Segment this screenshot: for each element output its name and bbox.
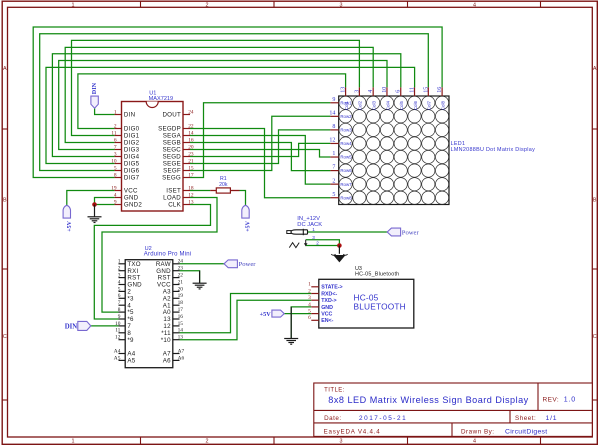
svg-text:19: 19	[178, 293, 184, 299]
U1 pin 10 DIG5	[115, 163, 122, 165]
U2 pin 5 2	[119, 290, 126, 292]
svg-text:1/1: 1/1	[546, 415, 558, 422]
title block frame	[314, 383, 593, 436]
wire DIN flag to U1 pin1	[95, 108, 115, 114]
U1 pin 9 GND2	[115, 204, 122, 206]
U2 pin 13 *10	[173, 339, 180, 341]
wire net SEGA (U1 SEGA to matrix Row7)	[190, 136, 330, 185]
wire net RXD (U2 pin14 to U3 RXD)	[180, 294, 312, 333]
wire net SEGB (U1 SEGB to matrix Row6)	[190, 143, 330, 171]
wire ISET to R1	[190, 190, 210, 192]
svg-text:DOUT: DOUT	[162, 112, 181, 119]
svg-text:20: 20	[188, 144, 194, 150]
svg-text:9: 9	[118, 314, 121, 320]
U1 pin 5 DIG6	[115, 170, 122, 172]
svg-text:3: 3	[312, 235, 315, 240]
svg-text:GND: GND	[124, 195, 139, 202]
svg-text:10: 10	[111, 158, 117, 164]
svg-text:6: 6	[118, 293, 121, 299]
svg-text:TXD->: TXD->	[321, 298, 336, 304]
U2 pin A5	[119, 359, 126, 361]
svg-text:1: 1	[72, 3, 75, 9]
svg-text:3: 3	[354, 90, 360, 93]
U3 pin 6 EN<-	[311, 319, 319, 321]
svg-text:MAX7219: MAX7219	[149, 96, 174, 102]
svg-text:1: 1	[114, 109, 117, 115]
wire net TXD (U2 pin13 to U3 TXD)	[180, 300, 312, 340]
wire net DIG7 (U1 DIG7 to matrix column)	[33, 27, 442, 178]
svg-text:B: B	[3, 198, 7, 204]
U2 pin 14 *11	[173, 332, 180, 334]
svg-text:HC-05_Bluetooth: HC-05_Bluetooth	[355, 272, 399, 278]
svg-text:ISET: ISET	[166, 188, 181, 195]
svg-text:5: 5	[308, 309, 311, 315]
svg-text:VCC: VCC	[124, 188, 138, 195]
svg-text:A5: A5	[114, 355, 121, 361]
svg-text:Sheet:: Sheet:	[515, 415, 536, 422]
wire DIN flag to U2 pin10	[91, 325, 119, 327]
svg-text:DIN: DIN	[91, 82, 98, 94]
U1 pin 16 SEGB	[183, 142, 190, 144]
svg-text:23: 23	[188, 151, 194, 157]
U1 pin 13 CLK	[183, 204, 190, 206]
svg-text:SEGC: SEGC	[162, 147, 181, 154]
svg-text:1: 1	[332, 151, 335, 157]
U1 pin 3 DIG4	[115, 156, 122, 158]
U2 pin 20 A3	[173, 290, 180, 292]
svg-text:10: 10	[115, 321, 121, 327]
svg-text:TITLE:: TITLE:	[324, 387, 345, 393]
wire GND pin4 of U1	[95, 198, 115, 205]
svg-text:7: 7	[118, 300, 121, 306]
svg-text:DC JACK: DC JACK	[297, 222, 322, 228]
svg-text:20k: 20k	[219, 182, 228, 188]
svg-text:SEGB: SEGB	[163, 140, 181, 147]
U1 pin 4 GND	[115, 197, 122, 199]
U3 pin 3 TXD->	[311, 299, 319, 301]
svg-text:2: 2	[114, 123, 117, 129]
svg-text:3: 3	[114, 151, 117, 157]
microcontroller U2 Arduino Pro Mini body	[125, 260, 173, 368]
wire net SEGC (U1 SEGC to matrix Row5)	[190, 150, 330, 158]
U3 pin 1 STATE->	[311, 286, 319, 288]
bluetooth module U3 HC-05 body	[319, 279, 414, 328]
svg-text:A6: A6	[178, 355, 185, 361]
svg-text:IN_+12V: IN_+12V	[297, 216, 320, 222]
U1 pin 17 SEGG	[183, 177, 190, 179]
wire net DIG3 (U1 DIG3 to matrix column)	[59, 61, 387, 150]
svg-text:24: 24	[188, 109, 194, 115]
svg-text:3: 3	[340, 3, 343, 9]
IC U1 MAX7219 body	[122, 102, 184, 212]
svg-text:+5V: +5V	[260, 311, 272, 318]
svg-text:12: 12	[188, 192, 194, 198]
svg-text:20: 20	[178, 286, 184, 292]
U1 pin 8 DIG7	[115, 177, 122, 179]
svg-text:18: 18	[178, 300, 184, 306]
DC jack connector symbol	[287, 231, 291, 234]
svg-text:LOAD: LOAD	[163, 195, 181, 202]
svg-text:GND2: GND2	[124, 202, 142, 209]
svg-text:Col8: Col8	[440, 101, 445, 111]
U1 pin 20 SEGC	[183, 149, 190, 151]
svg-text:2: 2	[206, 439, 209, 445]
svg-text:15: 15	[178, 321, 184, 327]
wire GND2 pin9 of U1	[95, 204, 115, 206]
U2 pin A6	[173, 359, 180, 361]
svg-text:17: 17	[178, 307, 184, 313]
wire net SEGD (U1 SEGD to matrix Row4)	[190, 143, 330, 156]
U2 pin 2 RXI	[119, 270, 126, 272]
svg-text:DIG4: DIG4	[124, 154, 140, 161]
ground symbol at DC jack (filled)	[338, 246, 340, 254]
wire DC jack tip to Power flag	[308, 231, 388, 233]
svg-text:4: 4	[473, 3, 476, 9]
U2 pin 11 8	[119, 332, 126, 334]
svg-text:3: 3	[118, 273, 121, 279]
svg-text:REV:: REV:	[543, 396, 560, 403]
svg-text:*9: *9	[127, 337, 134, 344]
ground symbol under U2 GND	[199, 271, 201, 284]
U1 pin 7 DIG3	[115, 149, 122, 151]
svg-text:16: 16	[188, 137, 194, 143]
wire U2 GND to ground	[180, 271, 200, 283]
svg-text:16: 16	[178, 314, 184, 320]
U1 pin 2 DIG0	[115, 128, 122, 130]
U2 pin 9 *6	[119, 318, 126, 320]
svg-text:+5V: +5V	[67, 220, 73, 231]
svg-text:4: 4	[114, 192, 117, 198]
svg-text:B: B	[593, 198, 597, 204]
U2 pin 8 *5	[119, 311, 126, 313]
svg-text:VCC: VCC	[321, 312, 332, 318]
U2 pin 6 *3	[119, 297, 126, 299]
wire +5V flag to U3 VCC	[284, 313, 311, 315]
svg-text:RXD<-: RXD<-	[321, 291, 337, 297]
svg-text:5: 5	[118, 286, 121, 292]
svg-text:A4: A4	[114, 348, 121, 354]
U2 pin 4 GND	[119, 284, 126, 286]
svg-text:8x8 LED Matrix Wireless Sign B: 8x8 LED Matrix Wireless Sign Board Displ…	[328, 395, 528, 405]
U2 pin A4	[119, 353, 126, 355]
power flag Power (DC jack)	[387, 228, 400, 236]
wire net DIG5 (U1 DIG5 to matrix column)	[46, 67, 415, 163]
svg-text:A7: A7	[178, 348, 185, 354]
svg-text:BLUETOOTH: BLUETOOTH	[354, 301, 406, 311]
svg-text:DIG3: DIG3	[124, 147, 140, 154]
U3 pin 2 RXD<-	[311, 293, 319, 295]
U1 pin 23 SEGD	[183, 156, 190, 158]
svg-text:DIG0: DIG0	[124, 126, 140, 133]
U2 pin 24 RAW	[173, 263, 180, 265]
net flag DIN (top, to U1)	[91, 96, 98, 108]
svg-text:1: 1	[118, 259, 121, 265]
svg-text:SEGF: SEGF	[163, 168, 181, 175]
U1 pin 12 LOAD	[183, 197, 190, 199]
svg-text:8: 8	[118, 307, 121, 313]
svg-text:14: 14	[178, 328, 184, 334]
svg-text:7: 7	[114, 144, 117, 150]
svg-text:Col7: Col7	[427, 101, 432, 111]
svg-text:CLK: CLK	[168, 202, 181, 209]
svg-text:Col1: Col1	[344, 101, 349, 111]
svg-text:15: 15	[423, 87, 429, 93]
U1 pin 6 DIG2	[115, 142, 122, 144]
svg-text:SEGE: SEGE	[163, 161, 181, 168]
svg-text:A6: A6	[163, 358, 171, 365]
svg-text:3: 3	[308, 295, 311, 301]
svg-text:24: 24	[178, 259, 184, 265]
svg-text:Col4: Col4	[385, 101, 390, 111]
svg-text:SEGD: SEGD	[162, 154, 181, 161]
wire DC jack pin3 down	[306, 240, 340, 246]
svg-text:Arduino Pro Mini: Arduino Pro Mini	[144, 252, 192, 258]
svg-text:Date:: Date:	[324, 415, 342, 422]
svg-text:1.0: 1.0	[564, 396, 576, 403]
U2 pin 10 7	[119, 325, 126, 327]
svg-text:DIG7: DIG7	[124, 175, 140, 182]
svg-text:Row2: Row2	[340, 114, 352, 119]
svg-text:DIN: DIN	[65, 323, 78, 330]
svg-text:4: 4	[368, 90, 374, 93]
wire net SEGF (U1 SEGF to matrix Row2)	[190, 116, 330, 170]
wire net SEGG (U1 SEGG to matrix Row1)	[190, 103, 330, 178]
svg-text:Col3: Col3	[371, 101, 376, 111]
svg-text:14: 14	[188, 130, 194, 136]
svg-text:CircuitDigest: CircuitDigest	[505, 429, 547, 436]
svg-text:22: 22	[188, 123, 194, 129]
U2 pin 7 4	[119, 304, 126, 306]
svg-text:A5: A5	[127, 358, 135, 365]
svg-text:18: 18	[188, 185, 194, 191]
svg-text:10: 10	[382, 87, 388, 93]
U2 pin 1 TXO	[119, 263, 126, 265]
svg-text:23: 23	[178, 266, 184, 272]
svg-text:13: 13	[341, 87, 347, 93]
U1 pin 14 SEGA	[183, 135, 190, 137]
svg-text:2: 2	[118, 266, 121, 272]
svg-text:Row5: Row5	[340, 155, 352, 160]
svg-text:5: 5	[114, 165, 117, 171]
svg-text:Drawn By:: Drawn By:	[461, 429, 495, 436]
U2 pin 3 RST	[119, 277, 126, 279]
svg-text:6: 6	[396, 90, 402, 93]
resistor R1 20k	[210, 190, 216, 192]
svg-text:11: 11	[410, 87, 416, 93]
svg-text:SEGG: SEGG	[162, 175, 181, 182]
U1 pin 22 SEGDP	[183, 128, 190, 130]
svg-text:DIG1: DIG1	[124, 133, 140, 140]
svg-text:2017-05-21: 2017-05-21	[359, 415, 407, 422]
svg-text:21: 21	[188, 158, 194, 164]
U2 pin 19 A2	[173, 297, 180, 299]
wire net SEGDP (U1 SEGDP to matrix Row8)	[190, 129, 330, 198]
wire net DIG4 (U1 DIG4 to matrix column)	[52, 54, 400, 157]
U1 pin 1 DIN	[115, 114, 122, 116]
svg-text:Row4: Row4	[340, 141, 352, 146]
svg-text:9: 9	[332, 97, 335, 103]
U1 pin 18 ISET	[183, 190, 190, 192]
svg-text:16: 16	[437, 87, 443, 93]
svg-text:4: 4	[308, 302, 311, 308]
U2 pin A7	[173, 353, 180, 355]
U2 pin 23 GND	[173, 270, 180, 272]
svg-text:2: 2	[206, 3, 209, 9]
svg-text:7: 7	[332, 165, 335, 171]
svg-text:SEGDP: SEGDP	[158, 126, 181, 133]
svg-text:LMN2088BU Dot Matrix Display: LMN2088BU Dot Matrix Display	[451, 147, 535, 153]
U1 pin 19 VCC	[115, 190, 122, 192]
svg-text:+5V: +5V	[246, 220, 252, 231]
svg-text:DIG5: DIG5	[124, 161, 140, 168]
svg-text:12: 12	[329, 138, 335, 144]
wire net SEGE (U1 SEGE to matrix Row3)	[190, 130, 330, 164]
svg-text:*10: *10	[161, 337, 171, 344]
svg-text:DIG2: DIG2	[124, 140, 140, 147]
wire net DIG1 (U1 DIG1 to matrix column)	[72, 40, 360, 135]
U2 pin 21 VCC	[173, 284, 180, 286]
power flag +5V (U3 VCC)	[272, 310, 284, 317]
U2 pin 17 A0	[173, 311, 180, 313]
svg-text:4: 4	[473, 439, 476, 445]
svg-text:Row8: Row8	[340, 195, 352, 200]
svg-text:A: A	[3, 66, 7, 72]
svg-text:SEGA: SEGA	[163, 133, 182, 140]
svg-text:11: 11	[115, 328, 120, 334]
svg-text:22: 22	[178, 273, 184, 279]
svg-text:9: 9	[114, 199, 117, 205]
svg-text:1: 1	[308, 282, 311, 288]
svg-text:Col2: Col2	[358, 101, 363, 111]
svg-text:Power: Power	[239, 261, 257, 268]
wire net DIG0 (U1 DIG0 to matrix column)	[78, 74, 346, 129]
svg-text:Power: Power	[402, 229, 420, 236]
svg-text:DIG6: DIG6	[124, 168, 140, 175]
U2 pin 16 13	[173, 318, 180, 320]
svg-text:EasyEDA V4.4.4: EasyEDA V4.4.4	[324, 429, 381, 436]
wire U2 RAW to Power flag	[180, 263, 225, 265]
net flag DIN (to U2 pin10)	[78, 321, 91, 330]
wire net DIG6 (U1 DIG6 to matrix column)	[40, 34, 429, 171]
U1 pin 15 SEGF	[183, 170, 190, 172]
svg-text:Col5: Col5	[399, 101, 404, 111]
svg-text:15: 15	[188, 165, 194, 171]
svg-text:STATE->: STATE->	[321, 285, 342, 291]
svg-text:GND: GND	[321, 305, 333, 311]
junction dot at DC jack ground	[337, 243, 342, 248]
svg-text:EN<-: EN<-	[321, 318, 333, 324]
svg-text:21: 21	[178, 279, 184, 285]
svg-text:4: 4	[118, 279, 121, 285]
svg-text:C: C	[593, 334, 597, 340]
svg-text:8: 8	[332, 124, 335, 130]
wire net DIG2 (U1 DIG2 to matrix column)	[65, 47, 373, 142]
U1 pin 21 SEGE	[183, 163, 190, 165]
ground symbol under U1 GND	[94, 205, 96, 217]
svg-text:13: 13	[188, 199, 194, 205]
svg-text:1: 1	[72, 439, 75, 445]
svg-text:Row7: Row7	[340, 182, 352, 187]
power flag +5V (U1 VCC)	[63, 205, 70, 218]
power flag +5V (R1)	[242, 205, 249, 218]
svg-text:6: 6	[114, 137, 117, 143]
wire net LOAD (U1 pin12 to U2 pin6)	[102, 198, 217, 313]
U2 pin 12 *9	[119, 339, 126, 341]
junction dot at U1 GND/GND2	[92, 202, 97, 207]
U3 pin 4 GND	[311, 306, 319, 308]
U1 pin 24 DOUT	[183, 114, 190, 116]
wire DC jack pin2 to ground junction	[306, 245, 340, 247]
U1 pin 11 DIG1	[115, 135, 122, 137]
svg-text:A: A	[593, 66, 597, 72]
svg-text:DIN: DIN	[124, 112, 135, 119]
svg-text:8: 8	[114, 172, 117, 178]
wire net CLK (U1 pin13 to U2 pin9)	[94, 205, 210, 320]
U2 pin 18 A1	[173, 304, 180, 306]
svg-text:Row6: Row6	[340, 168, 352, 173]
svg-text:2: 2	[308, 288, 311, 294]
ground symbol under U3 GND	[290, 307, 292, 339]
svg-text:Col6: Col6	[413, 101, 418, 111]
U3 pin 5 VCC	[311, 313, 319, 315]
U2 pin 22 RST	[173, 277, 180, 279]
svg-text:5: 5	[332, 192, 335, 198]
svg-text:C: C	[3, 334, 7, 340]
svg-text:3: 3	[340, 439, 343, 445]
wire R1 to +5V	[240, 191, 246, 206]
svg-text:11: 11	[111, 130, 116, 136]
svg-text:17: 17	[188, 172, 194, 178]
U2 pin 15 12	[173, 325, 180, 327]
LED matrix LED1 body and LED circles	[339, 96, 449, 205]
svg-text:12: 12	[115, 335, 121, 341]
svg-text:19: 19	[111, 185, 117, 191]
svg-text:2: 2	[316, 240, 319, 245]
LED1 row pins (9,14,8,12,1,7,2,5)	[330, 102, 338, 104]
svg-text:13: 13	[178, 335, 184, 341]
wire VCC of U1 to +5V	[67, 191, 115, 206]
svg-text:14: 14	[329, 110, 335, 116]
svg-text:2: 2	[332, 178, 335, 184]
power flag Power (U2 RAW)	[224, 260, 237, 268]
wire U3 GND to ground	[291, 307, 311, 338]
svg-text:Row3: Row3	[340, 128, 352, 133]
svg-text:6: 6	[308, 315, 311, 321]
LED1 column pins (13,3,4,10,6,11,15,16)	[345, 87, 347, 96]
